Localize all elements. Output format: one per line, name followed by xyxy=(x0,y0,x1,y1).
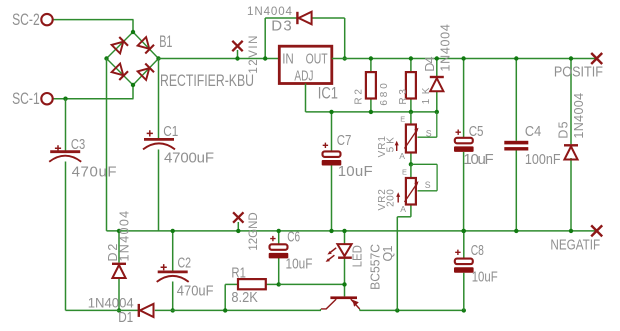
capacitor C1 xyxy=(144,138,174,141)
bottom rail xyxy=(66,309,139,311)
base rail C6 to LED/Q1 xyxy=(279,283,345,285)
LED xyxy=(337,244,351,256)
svg-text:D1: D1 xyxy=(118,309,133,326)
wire Q1 collector stub xyxy=(320,309,322,311)
svg-text:680: 680 xyxy=(379,83,390,106)
resistor R3 xyxy=(406,72,416,98)
svg-text:1N4004: 1N4004 xyxy=(572,93,586,139)
capacitor C8 xyxy=(455,259,473,265)
diode D5 xyxy=(564,144,578,146)
connector SC-2 xyxy=(41,14,52,25)
plus sign C6 xyxy=(270,236,275,241)
capacitor C4 xyxy=(504,141,528,145)
wire top rail bridge to IC1 IN xyxy=(159,58,280,60)
svg-text:10uF: 10uF xyxy=(286,256,313,273)
svg-text:C5: C5 xyxy=(469,123,484,140)
svg-text:10uF: 10uF xyxy=(463,151,493,168)
svg-text:12GND: 12GND xyxy=(246,212,260,251)
resistor R1 leads xyxy=(224,284,226,310)
svg-text:200: 200 xyxy=(386,189,397,207)
resistor R1 xyxy=(238,279,266,289)
diode D1 xyxy=(138,304,140,317)
transistor Q1 xyxy=(330,296,357,299)
pin mark X 12GND xyxy=(233,212,243,222)
wire negative column from bridge left vertex xyxy=(106,59,108,231)
capacitor C6 column wires xyxy=(278,231,280,244)
diode D4 xyxy=(430,76,444,78)
capacitor C2 column wires xyxy=(172,231,174,271)
svg-text:POSITIF: POSITIF xyxy=(554,63,603,80)
svg-text:Q1: Q1 xyxy=(381,245,395,261)
node 12VIN stub xyxy=(237,50,239,59)
svg-text:8.2K: 8.2K xyxy=(231,289,257,306)
svg-text:SC-1: SC-1 xyxy=(12,89,40,108)
svg-text:R2: R2 xyxy=(354,89,365,105)
pin mark X 12VIN xyxy=(232,41,242,51)
resistor R2 leads xyxy=(370,59,372,73)
capacitor C3 xyxy=(50,150,80,153)
diode D2 xyxy=(112,263,126,265)
svg-text:ADJ: ADJ xyxy=(294,68,313,85)
capacitor C5 xyxy=(455,138,473,144)
capacitor C5 column wires xyxy=(463,59,465,138)
wire OUT rail to POSITIF xyxy=(332,58,597,60)
bridge rectifier B1 arms xyxy=(107,32,134,59)
trimmer VR1 body xyxy=(406,125,416,153)
capacitor C7 column wires xyxy=(331,112,333,151)
diode D5 leads xyxy=(570,59,572,145)
diode D3 wires xyxy=(264,18,266,59)
svg-text:1N4004: 1N4004 xyxy=(118,211,132,262)
svg-text:C1: C1 xyxy=(163,123,178,140)
node 12GND stub xyxy=(237,222,239,231)
trimmer VR2 leads xyxy=(410,164,412,178)
capacitor C6 xyxy=(270,244,288,250)
trimmer VR2 body xyxy=(406,178,416,205)
svg-text:C3: C3 xyxy=(71,136,85,153)
wire VR2 wiper to top terminal xyxy=(411,163,437,165)
svg-text:1N4004: 1N4004 xyxy=(247,5,293,18)
svg-text:5K: 5K xyxy=(386,137,397,153)
svg-text:IN: IN xyxy=(282,51,294,68)
svg-text:NEGATIF: NEGATIF xyxy=(550,237,600,254)
plus sign C1 xyxy=(147,130,153,136)
junction SC-1 node xyxy=(63,97,67,101)
diode D3 xyxy=(296,12,298,24)
bridge vertices junctions xyxy=(131,30,135,34)
capacitor C8 column wires xyxy=(463,231,465,259)
adjust arrow VR2 xyxy=(397,196,399,203)
capacitor C4 column wires xyxy=(515,59,517,141)
svg-text:A: A xyxy=(400,204,406,214)
svg-text:4700uF: 4700uF xyxy=(164,149,214,166)
svg-text:A: A xyxy=(399,151,405,161)
svg-text:E: E xyxy=(400,115,405,124)
capacitor C2 xyxy=(158,270,188,273)
svg-text:470uF: 470uF xyxy=(177,282,214,299)
bridge B1 diode top-left xyxy=(111,37,128,54)
svg-text:C4: C4 xyxy=(525,123,541,140)
plus sign C5 xyxy=(456,130,461,135)
wire SC-1 to bridge bottom vertex xyxy=(53,98,134,100)
LED column wires xyxy=(344,231,346,244)
bridge B1 diode bottom-right xyxy=(137,63,154,80)
svg-text:C8: C8 xyxy=(471,242,484,259)
pin mark X POSITIF xyxy=(591,53,602,64)
svg-text:OUT: OUT xyxy=(306,51,328,68)
svg-text:C7: C7 xyxy=(337,132,352,149)
LED emission arrows xyxy=(330,248,336,253)
bridge B1 diode bottom-left xyxy=(111,63,128,80)
connector SC-1 xyxy=(41,93,52,104)
plus sign C7 xyxy=(323,143,328,148)
svg-text:S: S xyxy=(426,129,432,139)
capacitor C7 xyxy=(323,151,341,157)
plus sign C8 xyxy=(455,250,460,255)
adjust arrow VR1 xyxy=(396,144,398,151)
pin mark X NEGATIF xyxy=(591,225,602,236)
svg-text:10uF: 10uF xyxy=(338,163,373,180)
svg-text:D5: D5 xyxy=(556,121,570,138)
svg-text:12VIN: 12VIN xyxy=(248,36,260,74)
trimmer VR1 wiper arrow xyxy=(405,129,418,148)
svg-text:SC-2: SC-2 xyxy=(12,10,40,29)
svg-text:C2: C2 xyxy=(178,255,192,272)
trimmer VR1 leads xyxy=(410,112,412,125)
wire VR1 wiper to ADJ rail xyxy=(418,136,437,138)
svg-text:IC1: IC1 xyxy=(318,83,338,102)
diode D2 column wires xyxy=(118,231,120,263)
svg-text:C6: C6 xyxy=(287,229,300,246)
plus sign C3 xyxy=(55,145,61,151)
resistor R2 xyxy=(366,72,376,98)
svg-text:470uF: 470uF xyxy=(72,164,117,181)
capacitor C3 column wires xyxy=(65,99,67,151)
diode D4 leads xyxy=(436,59,438,77)
negative rail to NEGATIF xyxy=(107,230,597,232)
regulator IC1 box xyxy=(279,46,332,83)
bridge B1 diode top-right xyxy=(137,37,154,54)
svg-text:R1: R1 xyxy=(231,265,246,282)
svg-text:D4: D4 xyxy=(423,57,437,72)
trimmer VR2 wiper arrow xyxy=(405,183,418,202)
resistor R3 leads xyxy=(410,59,412,73)
svg-text:1N4004: 1N4004 xyxy=(438,24,452,71)
svg-text:LED: LED xyxy=(350,245,364,267)
wire SC-2 to bridge top vertex xyxy=(53,19,134,21)
svg-text:B1: B1 xyxy=(159,32,172,51)
svg-text:S: S xyxy=(425,180,431,190)
svg-text:D3: D3 xyxy=(271,18,291,35)
wire ADJ pin down and right xyxy=(305,84,307,112)
svg-text:10uF: 10uF xyxy=(472,269,498,286)
svg-text:E: E xyxy=(402,168,407,177)
wire VR2 bottom to Q1 emitter node xyxy=(397,216,411,218)
capacitor C1 column wires xyxy=(158,59,160,139)
svg-text:RECTIFIER-KBU: RECTIFIER-KBU xyxy=(160,71,254,90)
svg-text:100nF: 100nF xyxy=(525,151,561,168)
plus sign C2 xyxy=(161,264,167,270)
wire Q1 emitter to VR2/C8 node xyxy=(359,309,361,310)
